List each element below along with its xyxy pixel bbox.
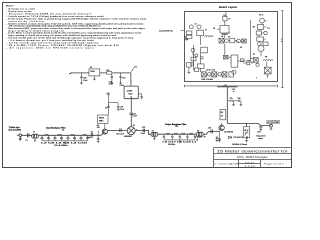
svg-text:U1: U1: [133, 125, 135, 127]
board layout outline box: [185, 12, 278, 82]
output filter shunt drops: [164, 134, 195, 136]
layout right column parts: [256, 25, 268, 46]
resistor R8: [220, 109, 226, 119]
svg-text:C4: C4: [213, 28, 215, 30]
output filter bus wire: [164, 138, 195, 140]
svg-text:C23: C23: [208, 128, 211, 130]
wire input run: [22, 134, 96, 136]
capacitor on amp feed: [107, 105, 110, 108]
transformer T4: [196, 132, 203, 136]
svg-text:RTL-SDR Dongle: RTL-SDR Dongle: [237, 155, 268, 159]
layout pad P2: [197, 25, 201, 29]
svg-text:0.1uF: 0.1uF: [109, 84, 113, 86]
output filter shunt capacitors: [163, 136, 196, 139]
layout pad P4: [232, 70, 236, 74]
wire output filter run: [158, 133, 196, 135]
amp stage box U3: [98, 115, 108, 123]
svg-text:U2: U2: [90, 67, 92, 69]
layout mixer cluster: [250, 58, 259, 67]
svg-text:0.1uF: 0.1uF: [120, 109, 124, 111]
pot ground: [245, 138, 248, 143]
diode D1: [229, 136, 232, 138]
capacitor C8 series: [91, 133, 92, 136]
svg-text:C26: C26: [237, 98, 240, 100]
svg-text:0.1uF: 0.1uF: [83, 80, 87, 82]
+12V rail wire: [72, 73, 131, 86]
svg-text:X1: X1: [253, 54, 255, 56]
svg-text:C2: C2: [195, 24, 197, 26]
svg-text:0.1uF: 0.1uF: [133, 116, 137, 118]
input filter bus wire: [42, 139, 88, 141]
svg-text:0.1uF: 0.1uF: [141, 133, 145, 135]
svg-text:L8: L8: [196, 139, 198, 141]
svg-text:C8: C8: [91, 131, 93, 133]
transformer T3: [151, 132, 158, 136]
caps on +5V rail: [227, 100, 235, 106]
svg-text:C25: C25: [230, 98, 233, 100]
svg-text:C. Turner KA7OEI: C. Turner KA7OEI: [214, 162, 240, 165]
svg-text:(35.0-35.45 MHz): (35.0-35.45 MHz): [267, 123, 281, 125]
svg-text:C28: C28: [257, 132, 260, 134]
svg-text:T: T: [256, 78, 257, 80]
svg-text:220: 220: [97, 127, 100, 129]
wire T4 to Q2: [203, 131, 219, 134]
svg-text:(21.0-21.45 MHz): (21.0-21.45 MHz): [9, 129, 22, 131]
input filter shunt capacitors: [41, 137, 90, 140]
svg-text:U1: U1: [240, 47, 242, 49]
svg-text:- All capacitors 0603 are NP0/: - All capacitors 0603 are NP0/C0G cerami…: [7, 46, 94, 49]
output level pot R9: [244, 127, 250, 138]
TCXO output test arrow: [138, 94, 142, 99]
svg-text:XTAL 21.4 MHz: XTAL 21.4 MHz: [201, 78, 213, 81]
svg-text:TCXO: TCXO: [128, 93, 133, 95]
layout vertical chain: [197, 53, 204, 72]
svg-text:L5 L6 L7 T4: L5 L6 L7 T4: [206, 70, 215, 72]
layout DIP IC: [230, 55, 238, 67]
ground at J2: [270, 127, 273, 130]
layout center row: [219, 38, 229, 43]
layout mid parts left of DIP: [223, 55, 231, 59]
layout pad P3: [260, 18, 265, 23]
layout part B: [197, 30, 204, 35]
layout pad P1: [189, 25, 193, 29]
svg-text:R9: R9: [244, 130, 246, 132]
svg-text:MMIC: MMIC: [99, 121, 104, 123]
svg-text:Notes!: Notes!: [6, 5, 14, 8]
capacitor C28: [259, 127, 262, 131]
layout TCXO can: [258, 46, 264, 52]
connector J1: [19, 134, 22, 137]
transistor Q2: [219, 125, 224, 130]
wire to output connector: [248, 123, 269, 125]
layout xtal filter box: [264, 67, 271, 77]
svg-text:1-7-13: 1-7-13: [244, 166, 256, 168]
layout coil squiggle A: [205, 36, 214, 37]
capacitor C1: [28, 133, 29, 137]
layout trace wires: [193, 23, 267, 74]
svg-text:Q1: Q1: [228, 37, 230, 39]
layout bottom left parts: [191, 63, 199, 72]
svg-text:T2: T2: [228, 19, 230, 21]
svg-text:C13: C13: [142, 127, 145, 129]
layout bottom left connector: [187, 63, 192, 74]
+12V input arrow: [69, 73, 73, 74]
ground on output bus: [179, 140, 182, 143]
svg-text:Converted RF Out: Converted RF Out: [159, 30, 173, 33]
wire collector feed: [222, 123, 249, 126]
svg-text:R8: R8: [221, 112, 223, 114]
svg-text:14 MHz: 14 MHz: [127, 91, 133, 93]
capacitor C10 with ground: [117, 107, 119, 111]
amp bias vertical: [97, 131, 100, 143]
layout misc labels: [195, 24, 270, 81]
svg-text:C9: C9: [105, 108, 107, 110]
RF out connector on board edge: [185, 37, 188, 40]
board ground plane divider: [249, 20, 251, 62]
svg-text:21.4 MHz: 21.4 MHz: [54, 145, 68, 147]
U2 ground pin: [93, 76, 96, 81]
inductor L8: [196, 137, 203, 138]
input stub wire: [17, 134, 19, 136]
ground under T3: [153, 137, 155, 140]
capacitor C12 on LO line: [130, 113, 134, 114]
svg-text:Page #1 of 1: Page #1 of 1: [264, 163, 286, 165]
svg-text:C11 0.1uF: C11 0.1uF: [116, 133, 124, 135]
svg-text:C4: C4: [62, 129, 64, 131]
layout coil squiggle B: [263, 60, 273, 61]
capacitor C22 with ground: [119, 73, 122, 84]
svg-text:C3: C3: [268, 28, 270, 30]
svg-text:C16: C16: [175, 126, 178, 128]
svg-text:14.0 MHz LO Board: 14.0 MHz LO Board: [232, 143, 247, 146]
svg-text:in: in: [233, 91, 234, 93]
layout part cluster C (center stack): [217, 12, 229, 55]
capacitor C29 with ground: [216, 136, 219, 142]
notes text block: [6, 5, 146, 50]
svg-text:C1: C1: [25, 140, 27, 142]
board width dimension line: [185, 85, 278, 88]
ground under T1: [34, 138, 36, 141]
output connector J2: [270, 124, 273, 127]
layout mid left cluster: [224, 39, 246, 43]
svg-text:5V in: 5V in: [259, 14, 263, 16]
layout right column stubs: [261, 21, 266, 39]
svg-text:in: in: [281, 41, 282, 43]
title block outline: [214, 148, 292, 168]
ground at J1: [19, 137, 22, 141]
voltage regulator U2: [89, 69, 100, 76]
svg-text:R2: R2: [253, 27, 255, 29]
svg-text:C9: C9: [223, 15, 225, 17]
svg-text:T1: T1: [33, 132, 35, 134]
capacitor C20 with ground: [80, 73, 83, 84]
svg-text:0.01uF: 0.01uF: [88, 137, 93, 139]
svg-text:C22: C22: [122, 77, 125, 79]
capacitor C13 series: [143, 129, 144, 133]
series coil L bumps on line: [45, 134, 87, 135]
svg-text:78L05: 78L05: [90, 71, 95, 73]
layout part row A: [186, 31, 192, 38]
svg-text:0.1uF: 0.1uF: [120, 85, 124, 87]
board height dimension line: [281, 11, 284, 88]
mixer ground stub: [130, 135, 132, 137]
svg-text:15 Meter downconverter for: 15 Meter downconverter for: [217, 150, 289, 154]
input filter shunt drops: [42, 135, 88, 137]
layout left column line: [194, 45, 197, 70]
wire mixer output: [135, 130, 151, 134]
capacitor C23 series: [211, 129, 212, 133]
layout lower-left cluster: [191, 47, 207, 61]
svg-text:MAR-6: MAR-6: [99, 117, 104, 120]
mixer U1: [127, 127, 135, 135]
wire box to amp: [104, 123, 106, 129]
svg-text:T3: T3: [152, 130, 154, 132]
svg-text:FB1: FB1: [107, 70, 110, 72]
layout small bits: [201, 57, 250, 65]
svg-text:Board Layout: Board Layout: [219, 5, 237, 9]
svg-text:TG-15: TG-15: [245, 162, 255, 164]
svg-text:X1: X1: [130, 97, 132, 99]
wire label to board: [181, 30, 185, 32]
layout toroid row: [202, 72, 234, 77]
Q2 emitter resistor to ground: [218, 131, 221, 142]
svg-text:T4: T4: [197, 130, 199, 132]
capacitor C21 with ground: [111, 74, 114, 84]
svg-text:R11 470 C31: R11 470 C31: [234, 137, 244, 139]
output filter coil bumps: [166, 133, 193, 134]
capacitor C11 series to mixer: [120, 128, 121, 132]
+5V net stub at corner: [131, 68, 133, 72]
svg-text:Q2 2N5109: Q2 2N5109: [224, 131, 233, 133]
ground on filter bus: [64, 141, 67, 144]
amplifier Q1: [102, 129, 107, 134]
svg-text:35.4 MHz: 35.4 MHz: [168, 144, 175, 146]
drawing border frame: [3, 3, 292, 168]
LO line from TCXO: [130, 99, 132, 127]
ferrite bead FB1: [107, 72, 112, 75]
svg-text:adjust: adjust: [258, 137, 263, 140]
TCXO box X1: [124, 86, 138, 99]
svg-text:T1: T1: [205, 30, 207, 32]
wire amp to mixer: [96, 131, 127, 136]
transformer T1: [32, 134, 39, 138]
